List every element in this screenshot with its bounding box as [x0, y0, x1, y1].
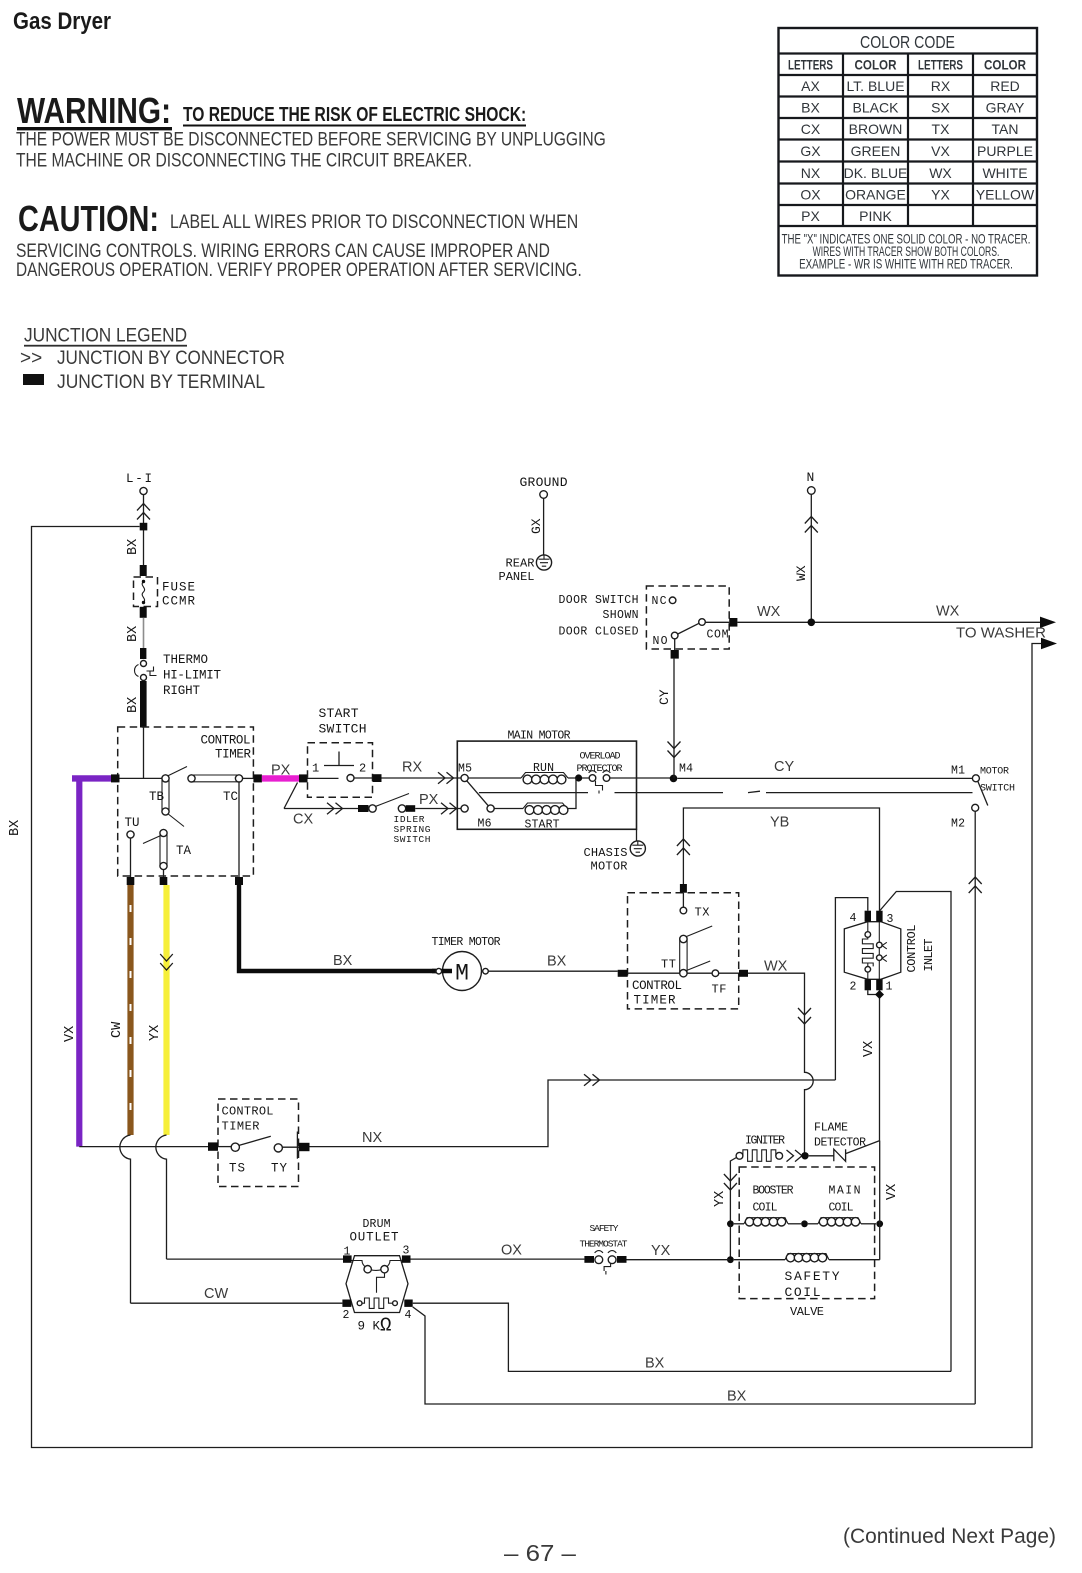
svg-text:CX: CX: [801, 121, 821, 137]
wire VX down from flame tap: [879, 1141, 881, 1224]
svg-text:COLOR CODE: COLOR CODE: [860, 34, 955, 53]
wire timer motor to control timer TT: [488, 970, 617, 972]
contact TY: [274, 1144, 282, 1152]
pin 2 terminal: [342, 1300, 351, 1307]
wire OX pin3 to safety thermostat: [411, 1258, 585, 1260]
fuse CCMR dashed box: [134, 577, 158, 607]
wire M5 to run coil: [468, 777, 521, 779]
contact COM: [699, 619, 706, 626]
svg-text:WX: WX: [757, 604, 781, 620]
svg-text:GREEN: GREEN: [851, 143, 901, 159]
svg-text:MAIN: MAIN: [829, 1185, 861, 1198]
svg-text:CONTROL: CONTROL: [632, 979, 682, 993]
terminal below fuse: [140, 607, 147, 618]
main motor box: [457, 741, 636, 829]
svg-text:PINK: PINK: [859, 208, 892, 224]
terminal TS left: [208, 1142, 218, 1150]
terminal TA bottom: [160, 877, 168, 885]
junction dot main coil right: [876, 1220, 883, 1227]
svg-text:TY: TY: [271, 1162, 287, 1176]
terminal above fuse: [140, 565, 147, 576]
svg-text:PANEL: PANEL: [499, 570, 535, 584]
safety coil: [734, 1259, 785, 1261]
pin 3 terminal: [402, 1255, 411, 1262]
junction chevrons down on WX drop: [798, 1008, 811, 1024]
valve dashed box: [739, 1167, 874, 1299]
terminal TX top: [680, 884, 687, 893]
svg-text:CY: CY: [774, 759, 794, 775]
svg-text:SWITCH: SWITCH: [394, 834, 431, 845]
svg-text:TB: TB: [149, 790, 164, 804]
svg-text:1: 1: [886, 981, 893, 994]
svg-text:CHASIS: CHASIS: [584, 846, 628, 860]
svg-text:TX: TX: [932, 121, 951, 137]
junction chevrons PX: [441, 803, 457, 815]
svg-text:LABEL ALL WIRES PRIOR TO DISCO: LABEL ALL WIRES PRIOR TO DISCONNECTION W…: [170, 211, 578, 233]
svg-text:COIL: COIL: [829, 1202, 854, 1215]
wire CY down to M4: [673, 659, 675, 779]
svg-text:BOOSTER: BOOSTER: [753, 1185, 794, 1198]
svg-text:CONTROL: CONTROL: [201, 734, 251, 748]
junction chevrons down: [724, 1174, 737, 1190]
svg-text:THE MACHINE OR DISCONNECTING T: THE MACHINE OR DISCONNECTING THE CIRCUIT…: [16, 149, 472, 171]
junction by connector chevrons up: [137, 504, 150, 520]
svg-text:PROTECTOR: PROTECTOR: [577, 764, 623, 775]
junction dot igniter/flame/WX: [801, 1152, 808, 1159]
svg-text:IGNITER: IGNITER: [745, 1135, 785, 1148]
junction dot WX/N: [808, 619, 816, 627]
wire GX: [543, 498, 545, 555]
wire start coil up to node: [567, 778, 576, 809]
svg-text:WHITE: WHITE: [982, 165, 1027, 181]
svg-text:CONTROL: CONTROL: [905, 925, 919, 973]
svg-text:DOOR SWITCH: DOOR SWITCH: [559, 594, 639, 607]
control timer box 1 dashed: [118, 727, 254, 876]
junction chevrons after igniter: [787, 1150, 803, 1162]
wire CY from M4 to motor switch M1: [677, 777, 972, 779]
svg-text:SWITCH: SWITCH: [319, 722, 367, 737]
svg-text:M6: M6: [478, 818, 492, 831]
svg-text:1: 1: [312, 762, 319, 776]
control timer TS/TY dashed box: [218, 1099, 299, 1187]
wire RX to main motor: [382, 777, 462, 779]
svg-text:CW: CW: [204, 1286, 228, 1302]
arrow to washer lower: [1041, 638, 1057, 649]
junction chevrons up on N wire: [805, 517, 818, 533]
svg-text:BLACK: BLACK: [853, 100, 900, 116]
svg-text:LETTERS: LETTERS: [788, 57, 833, 73]
svg-text:THE POWER MUST BE DISCONNECTED: THE POWER MUST BE DISCONNECTED BEFORE SE…: [16, 128, 606, 150]
table row lines: [779, 95, 1038, 97]
svg-text:JUNCTION BY CONNECTOR: JUNCTION BY CONNECTOR: [57, 347, 285, 368]
safety thermostat terminals and contacts: [584, 1256, 594, 1263]
wire CW brown vertical with white tracer: [127, 885, 133, 1135]
svg-text:SX: SX: [931, 100, 950, 116]
wire VX purple vertical: [76, 781, 82, 1147]
control timer TT dashed box: [628, 893, 739, 1009]
svg-text:M4: M4: [679, 763, 693, 776]
svg-text:Gas Dryer: Gas Dryer: [13, 8, 111, 35]
svg-text:NX: NX: [362, 1130, 382, 1146]
svg-text:LETTERS: LETTERS: [918, 57, 963, 73]
svg-text:RX: RX: [931, 78, 951, 94]
junction chevrons CX: [327, 803, 343, 815]
svg-text:PX: PX: [271, 763, 291, 779]
svg-text:COM: COM: [707, 629, 729, 642]
wire CX to idler: [284, 808, 359, 810]
svg-text:BX: BX: [547, 954, 567, 970]
svg-text:WARNING:: WARNING:: [17, 91, 171, 131]
svg-text:2: 2: [343, 1309, 350, 1322]
svg-text:THERMO: THERMO: [163, 653, 208, 667]
svg-text:PX: PX: [419, 792, 439, 808]
svg-text:CX: CX: [293, 812, 313, 828]
wire WX from TT to igniter node: [748, 973, 813, 1156]
svg-text:OX: OX: [501, 1243, 522, 1259]
terminal at TT box left: [618, 970, 628, 977]
drum outlet inner top contacts: [352, 1261, 402, 1271]
svg-text:CCMR: CCMR: [162, 595, 195, 609]
svg-text:OUTLET: OUTLET: [350, 1231, 399, 1245]
svg-text:GRAY: GRAY: [986, 100, 1025, 116]
wire YX thermostat to safety coil: [627, 1259, 731, 1261]
switch TT capsule: [680, 935, 687, 942]
switch blade NO-COM: [678, 623, 699, 634]
switch TA capsule: [160, 829, 167, 836]
terminal RX: [373, 774, 382, 782]
svg-text:NC: NC: [652, 595, 667, 608]
wire YX yellow vertical: [163, 885, 169, 1135]
svg-text:– 67 –: – 67 –: [504, 1541, 576, 1566]
svg-text:START: START: [319, 706, 359, 721]
wire left coil bus down: [729, 1224, 731, 1260]
wire YB from TX up and over to control inlet: [683, 808, 879, 911]
wire pin3 diagonal up to right loop: [880, 892, 952, 1372]
svg-text:PX: PX: [801, 208, 820, 224]
fuse element: [142, 582, 144, 603]
terminal TY right: [299, 1143, 310, 1151]
wire pin4 right then down to BX run: [413, 1303, 951, 1371]
wire M2 down: [974, 811, 976, 1404]
contact TS: [231, 1143, 239, 1151]
svg-text:START: START: [525, 819, 560, 832]
svg-text:FLAME: FLAME: [814, 1122, 848, 1135]
start switch dashed box: [308, 743, 373, 798]
svg-text:VALVE: VALVE: [790, 1305, 824, 1319]
svg-text:BX: BX: [333, 953, 353, 969]
svg-text:Ω: Ω: [380, 1315, 391, 1337]
wire TY to terminal: [282, 1146, 298, 1148]
junction chevrons RX: [438, 772, 454, 784]
svg-text:SHOWN: SHOWN: [603, 609, 639, 622]
table footnote: [782, 231, 1031, 272]
svg-text:TAN: TAN: [992, 121, 1019, 137]
junction chevrons on upper run: [584, 1074, 600, 1086]
pushbutton actuator: [324, 752, 354, 766]
wire TX terminal to contact: [682, 893, 684, 908]
drum outlet inner resistor: [357, 1301, 362, 1306]
svg-text:RED: RED: [990, 78, 1020, 94]
junction dot booster left: [727, 1220, 734, 1227]
svg-text:WX: WX: [929, 165, 952, 181]
table header row: [779, 74, 1038, 76]
svg-text:YB: YB: [770, 815, 789, 831]
svg-text:M1: M1: [951, 765, 965, 778]
wire TF to box edge: [719, 972, 739, 974]
svg-text:RX: RX: [402, 760, 422, 776]
svg-text:WX: WX: [794, 565, 809, 581]
terminal idler right: [406, 805, 416, 812]
drum outlet hexagon: [346, 1256, 408, 1313]
svg-text:YX: YX: [651, 1243, 671, 1259]
wire igniter left down to booster: [730, 1158, 736, 1224]
svg-text:N: N: [807, 470, 815, 485]
svg-text:1: 1: [344, 1246, 351, 1259]
table column lines: [842, 54, 844, 227]
control inlet hexagon: [844, 922, 901, 980]
svg-text:BX: BX: [801, 100, 820, 116]
svg-text:TT: TT: [661, 958, 676, 972]
color code table frame: [779, 28, 1038, 276]
thermo hi-limit right: [140, 648, 146, 659]
wire PX pink: [262, 775, 300, 781]
svg-text:TC: TC: [223, 790, 238, 804]
wire overload to M4: [610, 777, 674, 779]
wire TC branch down inside box: [238, 782, 240, 877]
wire fuse to thermo (gray): [143, 618, 145, 648]
svg-text:DK. BLUE: DK. BLUE: [844, 165, 908, 181]
svg-text:4: 4: [850, 912, 857, 925]
svg-text:L-I: L-I: [126, 472, 152, 486]
svg-text:MOTOR: MOTOR: [591, 860, 628, 874]
svg-text:M5: M5: [458, 763, 472, 776]
svg-text:COLOR: COLOR: [984, 56, 1027, 72]
svg-text:(Continued Next Page): (Continued Next Page): [843, 1525, 1056, 1548]
wire M6 contact to start coil: [494, 808, 523, 810]
svg-text:TF: TF: [712, 983, 727, 997]
contact TX: [680, 907, 687, 914]
svg-text:2: 2: [359, 762, 366, 776]
wire PX idler to M6: [415, 808, 461, 810]
svg-text:2: 2: [850, 981, 857, 994]
wire YX lower thin down to drum outlet row: [156, 1135, 343, 1259]
wire NX to rise and across with hop over WX drop: [310, 1080, 836, 1147]
svg-text:TU: TU: [125, 816, 140, 830]
svg-text:VX: VX: [931, 143, 950, 159]
start switch contact circle: [347, 775, 354, 782]
svg-text:M2: M2: [951, 818, 965, 831]
junction dot safety left: [727, 1256, 734, 1263]
svg-text:VX: VX: [862, 1041, 877, 1057]
svg-text:YX: YX: [148, 1025, 163, 1041]
wire pin4 up-left loop down to NX row: [835, 898, 867, 1080]
svg-text:TO WASHER: TO WASHER: [956, 625, 1046, 642]
svg-text:COLOR: COLOR: [855, 56, 898, 72]
svg-text:TIMER: TIMER: [222, 1120, 260, 1134]
rear panel ground symbol: [536, 555, 551, 570]
wire COM to box edge: [705, 621, 729, 623]
switch blade M5-M6: [467, 781, 489, 806]
wire chasis ground stem: [636, 829, 638, 841]
svg-text:NO: NO: [653, 635, 668, 648]
junction diamond below control inlet: [875, 990, 884, 999]
wire CX diagonal from PX node: [284, 783, 298, 809]
terminal WX at door switch: [729, 618, 737, 627]
svg-text:OX: OX: [800, 187, 821, 203]
svg-text:PURPLE: PURPLE: [977, 143, 1033, 159]
svg-text:SWITCH: SWITCH: [980, 784, 1015, 795]
svg-text:3: 3: [403, 1245, 410, 1258]
svg-text:SAFETY: SAFETY: [785, 1269, 840, 1284]
svg-text:OVERLOAD: OVERLOAD: [580, 752, 621, 763]
svg-text:TX: TX: [695, 906, 710, 920]
svg-text:THERMOSTAT: THERMOSTAT: [580, 1239, 628, 1250]
terminal PX left: [253, 774, 262, 782]
svg-text:WX: WX: [764, 959, 788, 975]
switch blade M1: [978, 781, 988, 805]
wire into TS: [218, 1146, 231, 1148]
svg-text:AX: AX: [801, 78, 820, 94]
svg-text:BX: BX: [126, 539, 141, 555]
svg-text:WX: WX: [936, 604, 960, 620]
svg-text:3: 3: [887, 913, 894, 926]
wires below control inlet pins join: [868, 990, 880, 1140]
control inlet thermostat branch: [878, 922, 880, 943]
wire L-I down: [143, 495, 145, 565]
terminal M6: [461, 805, 468, 812]
svg-text:DRUM: DRUM: [363, 1218, 391, 1231]
terminal M2: [972, 804, 979, 811]
svg-text:REAR: REAR: [506, 557, 535, 571]
svg-text:BX: BX: [8, 820, 23, 836]
wire into box down to TB row: [119, 727, 162, 778]
wire run coil to node: [568, 777, 590, 779]
svg-text:CAUTION:: CAUTION:: [18, 198, 159, 239]
junction dot run/start: [575, 774, 582, 781]
wire NO down to terminal: [674, 639, 676, 650]
svg-text:VX: VX: [63, 1026, 78, 1042]
wire thermo to control timer (thick black BX): [140, 681, 147, 728]
wire inside TT box: [628, 972, 712, 974]
idler spring switch contacts: [369, 805, 376, 812]
svg-text:MAIN MOTOR: MAIN MOTOR: [508, 730, 571, 743]
svg-text:MOTOR: MOTOR: [980, 767, 1009, 778]
svg-text:BROWN: BROWN: [849, 121, 903, 137]
pin 1 terminal: [343, 1255, 352, 1262]
svg-text:JUNCTION BY TERMINAL: JUNCTION BY TERMINAL: [57, 371, 265, 392]
svg-text:GX: GX: [529, 518, 544, 534]
svg-text:BX: BX: [727, 1389, 747, 1405]
terminal CY at door switch: [671, 650, 679, 659]
wire TC to box edge: [243, 777, 254, 779]
junction chevrons down on CY wire: [668, 742, 681, 758]
terminal junction at loop top: [140, 523, 148, 531]
wire N down: [810, 494, 812, 622]
wire pink terminal into switch: [308, 777, 339, 779]
svg-text:COIL: COIL: [785, 1285, 821, 1300]
junction chevrons up on YB: [677, 839, 690, 855]
svg-text:ORANGE: ORANGE: [845, 187, 906, 203]
terminal idler left: [358, 805, 369, 812]
svg-text:TIMER: TIMER: [215, 748, 251, 762]
svg-text:TA: TA: [176, 844, 191, 858]
svg-text:YX: YX: [931, 187, 950, 203]
wire CW lower thin: [120, 1135, 131, 1303]
terminal TC-branch bottom: [235, 877, 243, 885]
wire BX thick from TC branch to timer motor: [237, 885, 436, 971]
svg-text:YX: YX: [713, 1191, 728, 1207]
svg-text:BX: BX: [126, 626, 141, 642]
svg-text:4: 4: [405, 1309, 412, 1322]
svg-text:CONTROL: CONTROL: [222, 1105, 274, 1119]
svg-text:GROUND: GROUND: [520, 475, 568, 490]
centrifugal switch line: [479, 791, 973, 792]
wire VX purple from left: [72, 775, 112, 781]
svg-text:FUSE: FUSE: [162, 581, 195, 595]
tick at box edge: [296, 1132, 298, 1159]
wire CW row to pin 2: [131, 1302, 343, 1304]
svg-text:SAFETY: SAFETY: [590, 1223, 619, 1234]
legend junction by terminal: [23, 374, 44, 385]
svg-text:M: M: [455, 961, 469, 987]
terminal at TT box right: [739, 970, 748, 977]
junction chevrons down on yellow: [160, 954, 173, 970]
table title row: [779, 52, 1038, 54]
terminal purple at box edge: [111, 774, 120, 782]
junction dot M4: [670, 775, 678, 783]
pin 2 terminal: [865, 979, 871, 990]
contact circle next to M6: [487, 805, 494, 812]
svg-text:RIGHT: RIGHT: [163, 684, 200, 698]
wire NX row from purple with hops over CW and YX: [79, 1146, 208, 1148]
wire big loop left/bottom/right to washer: [32, 527, 1045, 1448]
pin 1 terminal: [876, 979, 882, 990]
pin 4 terminal: [865, 911, 871, 922]
wire pin4 diagonal down to lower BX run: [413, 1307, 976, 1404]
contact TF: [712, 970, 719, 977]
switch blade TS-TY: [239, 1136, 271, 1145]
junction dot center coil: [801, 1220, 808, 1227]
svg-text:COIL: COIL: [753, 1202, 778, 1215]
svg-text:CW: CW: [110, 1021, 125, 1038]
svg-text:EXAMPLE - WR IS WHITE WITH RED: EXAMPLE - WR IS WHITE WITH RED TRACER.: [799, 256, 1013, 272]
svg-text:TO REDUCE THE RISK OF ELECTRIC: TO REDUCE THE RISK OF ELECTRIC SHOCK:: [183, 103, 526, 126]
wire WX to washer: [737, 621, 1043, 623]
control inlet resistor branch: [867, 922, 869, 932]
wire to flame detector: [809, 1155, 834, 1157]
junction chevrons up on M2 wire: [969, 877, 982, 893]
svg-text:VX: VX: [885, 1184, 900, 1200]
door switch dashed box: [646, 586, 729, 649]
svg-text:TS: TS: [229, 1162, 245, 1176]
wire flame detector diagonal to VX line: [846, 1141, 880, 1154]
flame detector symbol: [834, 1149, 846, 1161]
switch TC capsule horizontal: [188, 775, 195, 782]
svg-text:CY: CY: [657, 689, 672, 705]
svg-text:DANGEROUS OPERATION. VERIFY PR: DANGEROUS OPERATION. VERIFY PROPER OPERA…: [16, 258, 582, 280]
svg-text:DOOR CLOSED: DOOR CLOSED: [559, 626, 639, 639]
terminal TU bottom: [127, 877, 135, 885]
svg-text:DETECTOR: DETECTOR: [814, 1137, 866, 1150]
svg-text:GX: GX: [800, 143, 821, 159]
svg-text:9 K: 9 K: [358, 1320, 381, 1334]
svg-text:NX: NX: [801, 165, 821, 181]
pin 3 terminal: [876, 911, 882, 922]
terminal PX right: [299, 774, 308, 782]
arrow to washer upper: [1040, 617, 1056, 628]
svg-text:YELLOW: YELLOW: [976, 187, 1035, 203]
svg-text:LT. BLUE: LT. BLUE: [846, 78, 904, 94]
